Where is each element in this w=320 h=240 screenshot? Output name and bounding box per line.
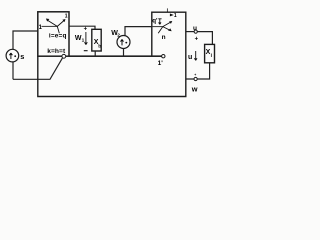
wire source bottom [12,62,14,79]
u terminal stub [186,31,194,33]
svg-text:s: s [20,52,24,61]
reactance Xl rect [205,44,215,62]
wire bottom horizontal + diagonal to terminal 2 [13,58,62,79]
wire u to Xl [197,32,212,45]
Xl bottom wire to outer loop [186,63,210,79]
svg-text:k=h=t: k=h=t [47,48,66,55]
w terminal circle [194,77,197,80]
u terminal circle [194,30,197,33]
terminal on box bottom [62,54,66,58]
svg-text:1: 1 [82,37,85,43]
svg-text:n: n [162,34,166,41]
svg-text:1': 1' [158,60,164,67]
reactance Xb rect [92,29,101,51]
svg-text:i=e=q: i=e=q [49,33,67,40]
svg-text:1: 1 [174,13,177,19]
source W2 circle [117,36,130,49]
transducer box 1 (left electromechanical box) [38,12,69,56]
W2 bottom lead [123,48,125,56]
svg-text:+: + [195,37,199,43]
svg-text:u: u [188,54,192,61]
top bus from box to Xb [69,26,95,29]
svg-text:q': q' [152,17,158,24]
terminal 1' circle [162,55,165,58]
right box mechanism [152,26,163,28]
arrow W1 [85,32,88,45]
left box mechanism [42,25,58,27]
svg-text:b: b [98,43,101,49]
svg-text:u: u [193,25,197,32]
svg-text:w: w [191,85,198,94]
middle bus wire [69,55,162,57]
wire W2 top to right box [125,27,152,36]
Xb bottom lead [94,51,96,56]
svg-text:1: 1 [65,14,68,20]
outer loop wire [38,12,186,96]
wire source top to box left [13,31,38,49]
svg-text:+: + [194,73,196,77]
minus sign W1 [84,50,88,52]
source S [6,49,19,62]
down arrow T next to q' [158,19,161,25]
svg-text:l: l [211,53,212,59]
svg-text:+: + [84,27,88,33]
